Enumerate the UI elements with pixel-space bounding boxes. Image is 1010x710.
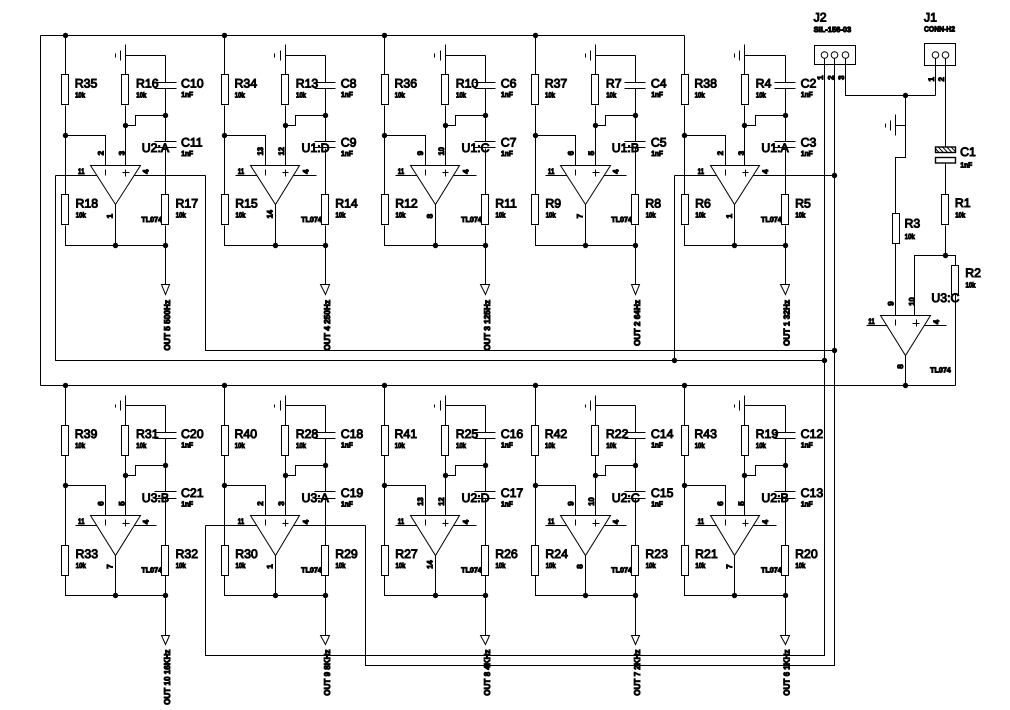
svg-text:R37: R37 [545, 77, 568, 91]
wire pin 4 stub [135, 525, 157, 527]
svg-text:OUT 7 2KHz: OUT 7 2KHz [632, 650, 642, 696]
wire node to R18 [65, 136, 67, 195]
wire node to C5 [635, 116, 637, 142]
svg-text:R9: R9 [545, 197, 561, 211]
wire U2:A pin 4 riser / V+ rail [206, 176, 835, 351]
capacitor C2 1nF [775, 77, 817, 100]
wire R6 to output rail [685, 226, 735, 246]
wire R30 to output rail [225, 576, 276, 596]
capacitor C8 1nF [315, 77, 357, 100]
svg-text:11: 11 [868, 317, 875, 326]
svg-text:10k: 10k [336, 561, 347, 570]
wire feedback step [596, 116, 636, 126]
svg-text:C17: C17 [501, 486, 524, 500]
junction node R36/R12 [382, 133, 387, 138]
wire feedback step [446, 116, 486, 126]
junction node R10 [443, 123, 448, 128]
svg-text:10k: 10k [395, 441, 406, 450]
svg-text:U3:C: U3:C [931, 291, 959, 305]
wire R19 to node [744, 456, 746, 476]
wire feedback step [596, 466, 636, 476]
wire R32 lead [165, 576, 167, 596]
wire R15 to output rail [225, 226, 276, 246]
resistor R25 10k [442, 426, 479, 456]
svg-text:10k: 10k [76, 561, 87, 570]
ground [735, 401, 740, 411]
wire C19 to R29 [325, 499, 327, 546]
wire R31 to node [125, 456, 127, 476]
svg-text:R40: R40 [235, 427, 258, 441]
svg-text:4: 4 [301, 519, 310, 524]
wire output rail to R20 [735, 595, 786, 597]
svg-text:1nF: 1nF [501, 440, 513, 449]
svg-text:TL074: TL074 [761, 566, 782, 575]
junction node R1/R2 [943, 253, 948, 258]
wire node to C17 [485, 466, 487, 492]
wire J2 pin 3 to ground net [846, 59, 936, 96]
resistor R34 10k [222, 75, 258, 105]
svg-text:14: 14 [425, 560, 434, 569]
wire to output arrow OUT 1 32Hz [785, 246, 787, 285]
junction node R22 [593, 473, 598, 478]
svg-text:C21: C21 [181, 486, 204, 500]
wire R29 lead [325, 576, 327, 596]
svg-text:11: 11 [78, 167, 85, 176]
svg-text:R2: R2 [965, 266, 981, 280]
wire pin 11 stub [546, 175, 567, 177]
wire C17 to R26 [485, 499, 487, 546]
wire node to C7 [485, 116, 487, 142]
wire pin 11 stub [396, 175, 417, 177]
wire pin 11 stub [546, 525, 567, 527]
junction node R34/R15 [222, 133, 227, 138]
wire node to R21 [684, 486, 686, 546]
wire output rail to R17 [116, 245, 166, 247]
resistor R22 10k [592, 426, 629, 456]
svg-text:R34: R34 [235, 77, 258, 91]
capacitor C20 1nF [155, 427, 204, 450]
wire to C2 [785, 56, 787, 83]
junction node R28 [283, 473, 288, 478]
svg-text:R3: R3 [905, 217, 921, 231]
junction node C18/C19 [323, 463, 328, 468]
svg-text:10k: 10k [695, 211, 706, 220]
resistor R41 10k [382, 426, 418, 456]
junction node R4 [742, 123, 747, 128]
wire R3 to -input pin 9 [895, 244, 897, 316]
wire R18 to output rail [66, 226, 116, 246]
svg-text:R30: R30 [235, 547, 258, 561]
svg-text:10k: 10k [236, 561, 247, 570]
wire U2:A pin 11 riser [56, 176, 825, 361]
resistor R17 10k [162, 195, 199, 225]
wire C21 to R32 [165, 499, 167, 546]
junction output node [113, 593, 118, 598]
svg-text:TL074: TL074 [761, 215, 782, 224]
wire R40 to node [224, 456, 226, 486]
wire node to C21 [165, 466, 167, 492]
svg-text:C20: C20 [181, 427, 204, 441]
wire to C16 [485, 406, 487, 433]
wire ground net to R3 [896, 96, 906, 214]
svg-text:11: 11 [78, 517, 85, 526]
svg-text:3: 3 [837, 75, 846, 80]
svg-text:11: 11 [548, 517, 555, 526]
capacitor C12 1nF [775, 427, 824, 450]
wire pin 11 stub [236, 175, 257, 177]
wire R2 to output bus [955, 295, 957, 386]
resistor R16 10k [122, 75, 159, 105]
svg-text:10k: 10k [606, 441, 617, 450]
junction R17 node [163, 243, 168, 248]
wire R26 lead [485, 576, 487, 596]
output arrow OUT 3 125Hz [481, 285, 490, 295]
connector J2 (SIL-156-03) [815, 46, 856, 65]
junction U3:C output node [903, 383, 908, 388]
svg-text:1nF: 1nF [341, 500, 353, 509]
output arrow OUT 2 64Hz [632, 285, 640, 295]
svg-text:10k: 10k [646, 561, 657, 570]
wire to output arrow OUT 9 8KHz [325, 596, 327, 636]
svg-text:R36: R36 [395, 77, 418, 91]
svg-text:C14: C14 [651, 427, 674, 441]
svg-text:OUT 4 250Hz: OUT 4 250Hz [322, 300, 332, 351]
junction output node [273, 593, 278, 598]
junction node R39/R33 [63, 483, 68, 488]
svg-text:10k: 10k [795, 561, 806, 570]
wire feedback step [286, 466, 326, 476]
wire to output arrow OUT 7 2KHz [635, 596, 637, 636]
capacitor C9 1nF [315, 136, 357, 159]
svg-text:10k: 10k [966, 280, 977, 289]
wire to C12 [785, 406, 787, 433]
svg-text:R32: R32 [176, 547, 199, 561]
wire to output arrow OUT 5 500Hz [165, 246, 167, 285]
svg-text:C18: C18 [341, 427, 364, 441]
svg-text:C2: C2 [801, 77, 817, 91]
svg-text:1nF: 1nF [501, 90, 513, 99]
svg-text:8: 8 [425, 213, 434, 218]
wire node to +input pin 10 [445, 126, 447, 166]
wire node to +input pin 5 [125, 476, 127, 516]
svg-text:1nF: 1nF [960, 161, 972, 170]
wire C4 to node [635, 89, 637, 116]
ground [435, 51, 441, 61]
svg-text:R8: R8 [645, 197, 661, 211]
svg-text:C5: C5 [651, 136, 667, 150]
svg-text:4: 4 [612, 169, 621, 174]
wire C9 to R14 [325, 149, 327, 195]
wire ground lead [125, 45, 127, 75]
wire to output arrow OUT 3 125Hz [485, 246, 487, 285]
connector J1 (CONN-H2) [925, 44, 956, 66]
svg-text:4: 4 [142, 519, 151, 524]
svg-text:U1:D: U1:D [302, 141, 330, 155]
wire node to +input pin 3 [744, 126, 746, 166]
wire U3:C pin 11 stub [867, 325, 888, 327]
op-amp U2:B (TL074) [711, 516, 760, 556]
wire C10 to node [165, 89, 167, 116]
wire op-amp output pin 7 [585, 205, 587, 246]
junction node C4/C5 [633, 113, 638, 118]
svg-text:10k: 10k [296, 91, 307, 100]
svg-text:10k: 10k [955, 211, 966, 220]
op-amp U1:D (TL074) [251, 166, 300, 205]
wire R34 to node [224, 106, 226, 136]
wire to C14 [635, 406, 637, 433]
wire J2 pin 2 lead [834, 59, 836, 65]
svg-text:R6: R6 [695, 197, 711, 211]
svg-text:R12: R12 [395, 197, 418, 211]
wire node to C15 [635, 466, 637, 492]
svg-text:1nF: 1nF [181, 90, 193, 99]
junction R5 node [783, 243, 788, 248]
svg-text:10k: 10k [496, 211, 507, 220]
svg-text:10k: 10k [606, 91, 617, 100]
wire C11 to R17 [165, 149, 167, 195]
capacitor C14 1nF [625, 427, 674, 450]
wire R7 to node [595, 106, 597, 126]
svg-text:R38: R38 [694, 77, 717, 91]
svg-text:10k: 10k [235, 91, 246, 100]
wire output rail to R8 [586, 245, 636, 247]
wire R20 lead [785, 576, 787, 596]
svg-text:10k: 10k [646, 211, 657, 220]
svg-text:OUT 9 8KHz: OUT 9 8KHz [322, 650, 332, 696]
wire U2:A pin 11 to V- rail [56, 175, 97, 177]
svg-text:4: 4 [301, 169, 310, 174]
wire ground lead [445, 396, 447, 426]
svg-text:TL074: TL074 [141, 215, 162, 224]
wire U1:A pin 11 [675, 175, 717, 177]
resistor R38 10k [682, 75, 718, 105]
wire op-amp output pin 8 [435, 205, 437, 246]
wire U3:A pin 11 [206, 525, 257, 527]
wire node to R27 [384, 486, 386, 546]
svg-text:10k: 10k [396, 561, 407, 570]
capacitor C15 1nF [625, 486, 674, 509]
wire ground to cap column [745, 405, 786, 407]
svg-text:11: 11 [398, 517, 405, 526]
wire output rail to R32 [116, 595, 166, 597]
wire C5 to R8 [635, 149, 637, 195]
svg-text:1nF: 1nF [181, 149, 193, 158]
resistor R31 10k [122, 426, 159, 456]
svg-text:10k: 10k [75, 441, 86, 450]
svg-text:1nF: 1nF [501, 500, 513, 509]
junction output node [732, 243, 737, 248]
wire ground to cap column [126, 405, 166, 407]
wire to output arrow OUT 6 1KHz [785, 596, 787, 636]
wire U3:C output pin 8 [905, 356, 907, 386]
svg-text:4: 4 [461, 519, 470, 524]
resistor R37 10k [532, 75, 568, 105]
junction R23 node [633, 593, 638, 598]
ground [735, 51, 740, 61]
op-amp U3:C (TL074) [881, 316, 931, 356]
junction bottom bus at R40 [222, 383, 227, 388]
svg-text:11: 11 [698, 517, 705, 526]
capacitor C4 1nF [625, 77, 667, 100]
junction bottom bus at R41 [382, 383, 387, 388]
svg-text:R35: R35 [75, 77, 98, 91]
resistor R39 10k [62, 426, 98, 456]
wire op-amp output pin 1 [734, 205, 736, 246]
junction node C16/C17 [483, 463, 488, 468]
svg-text:10k: 10k [546, 211, 557, 220]
wire node to +input pin 12 [445, 476, 447, 516]
junction top bus at R36 [382, 33, 387, 38]
svg-text:4: 4 [461, 169, 470, 174]
capacitor C11 1nF [155, 136, 203, 159]
svg-text:R43: R43 [694, 427, 717, 441]
svg-text:4: 4 [761, 169, 770, 174]
op-amp U2:D (TL074) [411, 516, 460, 556]
svg-text:10k: 10k [905, 232, 916, 241]
wire to C20 [165, 406, 167, 433]
wire output rail to R5 [735, 245, 786, 247]
resistor R18 10k [62, 195, 99, 225]
svg-text:R42: R42 [545, 427, 568, 441]
junction node C6/C7 [483, 113, 488, 118]
capacitor C5 1nF [625, 136, 667, 159]
wire pin 4 stub [754, 525, 777, 527]
resistor R6 10k [682, 195, 711, 225]
wire C14 to node [635, 439, 637, 466]
wire bus drop to R37 [535, 36, 537, 75]
svg-text:U1:C: U1:C [462, 141, 490, 155]
wire pin 11 stub [696, 525, 717, 527]
svg-text:C7: C7 [501, 136, 517, 150]
resistor R10 10k [442, 75, 479, 105]
resistor R5 10k [782, 195, 811, 225]
wire node to -input pin 13 [225, 136, 266, 166]
resistor R11 10k [482, 195, 518, 225]
svg-text:R17: R17 [176, 197, 199, 211]
ground [116, 401, 121, 411]
svg-text:10: 10 [908, 297, 917, 306]
wire R22 to node [595, 456, 597, 476]
svg-text:9: 9 [416, 150, 425, 155]
wire to output arrow OUT 4 250Hz [325, 246, 327, 285]
svg-text:R1: R1 [955, 196, 971, 210]
svg-text:1nF: 1nF [181, 500, 193, 509]
wire node to +input pin 10 [595, 476, 597, 516]
wire node to R30 [224, 486, 226, 546]
svg-text:C4: C4 [651, 77, 667, 91]
wire node to R33 [65, 486, 67, 546]
wire bottom input bus [41, 385, 956, 387]
wire R43 to node [684, 456, 686, 486]
resistor R35 10k [62, 75, 98, 105]
wire op-amp output pin 8 [585, 556, 587, 596]
wire C16 to node [485, 439, 487, 466]
ground [275, 401, 281, 411]
resistor R36 10k [382, 75, 418, 105]
svg-text:1nF: 1nF [651, 149, 663, 158]
wire ground lead [445, 45, 447, 75]
output arrow OUT 10 16KHz [162, 636, 170, 645]
svg-text:14: 14 [265, 209, 274, 218]
svg-text:R20: R20 [795, 547, 818, 561]
svg-text:1: 1 [816, 75, 825, 80]
svg-text:J1: J1 [924, 11, 937, 25]
svg-text:3: 3 [737, 150, 746, 155]
svg-text:R14: R14 [335, 197, 358, 211]
svg-text:1: 1 [927, 77, 936, 82]
wire to C8 [325, 56, 327, 83]
svg-text:10k: 10k [695, 91, 706, 100]
svg-text:OUT 5 500Hz: OUT 5 500Hz [162, 300, 172, 351]
svg-text:10k: 10k [76, 211, 87, 220]
ground [435, 401, 441, 411]
junction ground net [903, 93, 908, 98]
svg-text:R39: R39 [75, 427, 98, 441]
resistor R9 10k [532, 195, 562, 225]
svg-text:10k: 10k [136, 91, 147, 100]
svg-text:10k: 10k [546, 561, 557, 570]
svg-text:1nF: 1nF [651, 500, 663, 509]
svg-text:1nF: 1nF [801, 440, 813, 449]
svg-text:10k: 10k [456, 91, 467, 100]
wire top input bus [41, 35, 685, 37]
svg-text:R4: R4 [756, 77, 772, 91]
svg-text:4: 4 [932, 319, 941, 324]
output arrow OUT 7 2KHz [632, 636, 640, 645]
wire feedback step [745, 116, 786, 126]
wire R9 to output rail [536, 226, 586, 246]
svg-text:10k: 10k [336, 211, 347, 220]
svg-text:12: 12 [277, 146, 286, 155]
svg-text:9: 9 [566, 501, 575, 506]
wire node to -input pin 2 [225, 486, 266, 516]
junction output node [583, 593, 588, 598]
wire U1:A pin 11 riser [674, 176, 676, 361]
resistor R29 10k [322, 546, 358, 576]
resistor R2 10k [952, 266, 982, 295]
junction output node [433, 243, 438, 248]
output arrow OUT 6 1KHz [781, 636, 790, 645]
svg-text:C15: C15 [651, 486, 674, 500]
wire feedback step [126, 466, 166, 476]
wire ground lead [744, 45, 746, 75]
junction R8 node [633, 243, 638, 248]
junction node R19 [742, 473, 747, 478]
resistor R15 10k [222, 195, 258, 225]
op-amp U2:C (TL074) [561, 516, 611, 556]
svg-text:TL074: TL074 [461, 566, 482, 575]
capacitor C1 1nF [934, 145, 976, 169]
ground [275, 51, 281, 61]
wire C13 to R20 [785, 499, 787, 546]
wire node to -input pin 13 [385, 486, 426, 516]
wire U2:A pin 4 [135, 175, 206, 177]
resistor R14 10k [322, 195, 358, 225]
svg-text:10k: 10k [496, 561, 507, 570]
junction output node [583, 243, 588, 248]
wire R12 to output rail [385, 226, 436, 246]
svg-text:C10: C10 [181, 77, 204, 91]
wire U3:A pin 4 riser [366, 65, 835, 666]
wire feedback step [446, 466, 486, 476]
svg-text:C9: C9 [341, 136, 357, 150]
wire op-amp output pin 14 [275, 205, 277, 246]
svg-text:R27: R27 [395, 547, 418, 561]
svg-text:1: 1 [106, 213, 115, 218]
wire R24 to output rail [536, 576, 586, 596]
wire pin 4 stub [605, 175, 627, 177]
wire to output arrow OUT 10 16KHz [165, 596, 167, 636]
